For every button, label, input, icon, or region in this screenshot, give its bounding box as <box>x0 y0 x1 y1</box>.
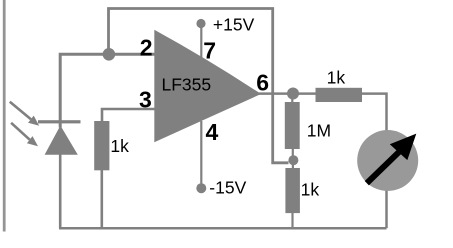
svg-text:-15V: -15V <box>209 177 246 197</box>
wire: photodiode anode down to bottom rail <box>59 154 62 228</box>
svg-text:7: 7 <box>203 37 216 63</box>
svg-text:LF355: LF355 <box>162 74 212 94</box>
wire: pin 7 stub to +15V <box>200 24 202 58</box>
resistor R3 1k (horizontal) <box>316 88 363 102</box>
wire: bottom rail <box>59 227 387 230</box>
resistor R2 1M <box>285 102 300 149</box>
resistor R4 1k <box>285 168 300 213</box>
svg-text:1k: 1k <box>110 136 129 156</box>
wire: stub dot to R2 top <box>291 94 293 103</box>
svg-text:1k: 1k <box>327 68 346 88</box>
left screenshot border line <box>3 0 6 232</box>
wire: pin 2 inverting input horizontal wire <box>60 54 154 127</box>
svg-text:1k: 1k <box>301 180 320 200</box>
wire: pin 4 stub to -15V <box>200 121 202 188</box>
svg-text:4: 4 <box>206 119 219 145</box>
node: junction dot at output / R2 <box>287 88 299 100</box>
light arrow 1 <box>10 102 39 126</box>
light arrow 2 <box>11 123 38 146</box>
wire: junction to R4 top <box>292 164 294 169</box>
svg-text:1M: 1M <box>307 120 331 140</box>
node: junction dot between R2 and R4 <box>288 155 298 165</box>
op-amp U1 LF355 body <box>154 30 261 142</box>
resistor R1 1k <box>94 121 109 170</box>
wire: meter bottom to rail <box>385 185 388 228</box>
svg-text:2: 2 <box>140 35 153 61</box>
power -15V terminal dot <box>196 183 206 193</box>
meter M1 body <box>357 130 418 191</box>
node: junction dot at pin 2 wire <box>103 48 116 61</box>
photodiode D1 cathode bar <box>38 120 81 123</box>
meter M1 needle arrow <box>367 134 417 184</box>
photodiode D1 body <box>45 126 78 155</box>
wire: R1 bottom to rail <box>101 170 104 228</box>
wire: R4 bottom to rail <box>291 213 293 228</box>
svg-text:+15V: +15V <box>213 15 255 35</box>
wire: feedback loop from inverting input node up over the top and down to R2/R4 junction <box>109 9 289 163</box>
wire: R2 bottom to junction <box>292 149 294 157</box>
wire: pin 3 input wire and down to R1 <box>102 109 155 122</box>
wire: pin 6 output wire to meter branch <box>258 94 387 135</box>
svg-text:6: 6 <box>256 69 269 95</box>
power +15V terminal dot <box>196 19 205 28</box>
svg-text:3: 3 <box>139 87 152 113</box>
